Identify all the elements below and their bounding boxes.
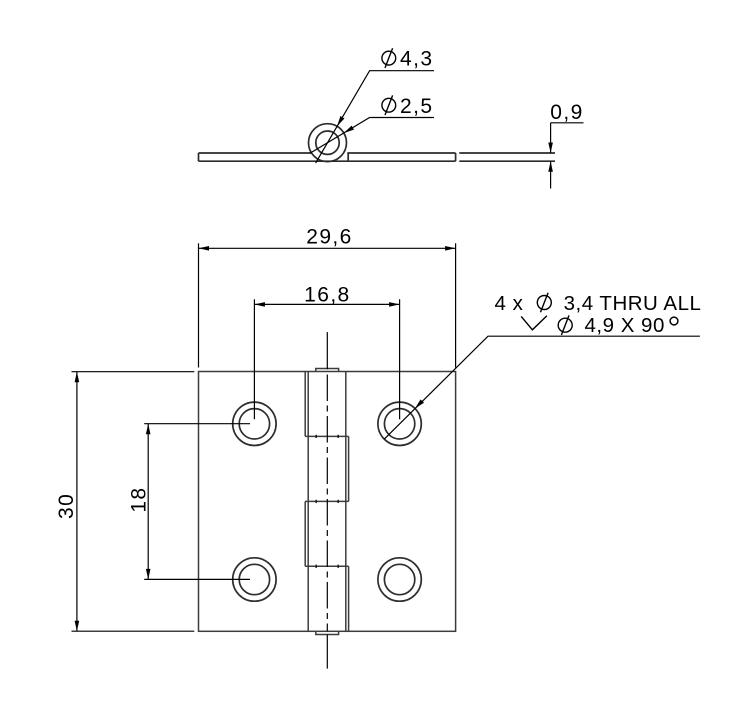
label dia 2,5 [382,95,434,118]
pin end cap bottom [316,631,339,634]
label dia 4,3 [382,48,434,71]
hole bottom-right [378,558,421,601]
svg-text:2,5: 2,5 [400,95,433,118]
left leaf plate outline [199,153,456,161]
callout line 2: countersink dia 4,9 X 90deg [521,314,678,337]
callout text line 1: 4 x dia 3,4 THRU ALL [495,292,702,315]
dimension 30 overall height [72,372,195,632]
knuckle section boundaries [305,435,348,437]
svg-text:4 x: 4 x [495,292,524,315]
hole top-left (countersink + thru) [233,402,276,445]
dimension 18 hole spacing vertical [144,424,250,580]
svg-text:0,9: 0,9 [550,101,583,124]
svg-text:18: 18 [128,487,151,513]
hole bottom-left [233,558,276,601]
arrowhead for 4,3 leader [337,116,344,126]
square plate outline [199,372,456,632]
arrowhead for hole callout [415,399,424,408]
svg-text:4,3: 4,3 [400,48,433,71]
hinge axis centerline [326,332,328,668]
knuckle outer circle [309,124,347,162]
hole callout leader [384,336,700,439]
hole top-right [378,402,421,445]
svg-text:3,4 THRU ALL: 3,4 THRU ALL [564,292,702,315]
pin tick marks at section boundaries [316,435,338,568]
dimension 16,8 hole spacing horizontal [254,299,399,419]
dimension 29,6 overall width [199,243,456,367]
dimension 0,9 (plate thickness) [551,123,584,189]
knuckle column verticals [305,372,348,632]
svg-text:16,8: 16,8 [304,283,350,306]
svg-text:29,6: 29,6 [306,226,352,249]
arrowhead for 2,5 leader [344,126,354,133]
svg-text:4,9 X 90: 4,9 X 90 [585,314,665,337]
leader line for diameter 2,5 [310,118,435,154]
countersink symbol [521,316,547,330]
svg-text:30: 30 [55,493,78,519]
knuckle pin inner circle [316,131,339,154]
right leaf plate (broken-off piece) [459,153,555,161]
pin end cap top [316,369,339,372]
leader line for diameter 4,3 [316,71,434,163]
